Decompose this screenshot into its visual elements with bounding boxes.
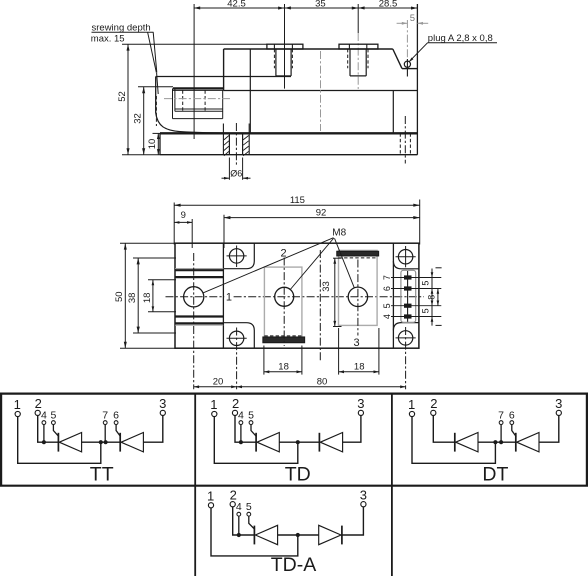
terminal 4 <box>41 409 47 424</box>
svg-text:18: 18 <box>354 361 365 372</box>
svg-text:32: 32 <box>133 113 144 124</box>
terminal 7 <box>498 409 504 424</box>
svg-text:80: 80 <box>317 376 328 387</box>
terminal 1 <box>207 488 214 508</box>
dimension 9 <box>174 210 192 248</box>
diode D1 <box>319 433 342 452</box>
wire terminal 7 drop <box>500 425 502 443</box>
svg-text:9: 9 <box>181 210 186 221</box>
junction terminal 7 <box>499 440 503 444</box>
leader to plug label <box>409 43 497 62</box>
svg-text:6: 6 <box>382 286 392 291</box>
mounting hole top-left <box>227 246 247 268</box>
boss top-right <box>393 261 419 269</box>
dimension 32 <box>133 87 173 155</box>
svg-text:TD-A: TD-A <box>271 554 317 576</box>
svg-text:18: 18 <box>278 361 289 372</box>
table divider 1 <box>194 394 196 576</box>
dimension 18 (left) <box>142 280 176 312</box>
junction terminal 4 <box>42 440 46 444</box>
schematic table top border <box>0 393 588 395</box>
dimension 8 (tabs 6-5) <box>427 289 440 306</box>
right mounting hole (hidden) <box>400 133 410 154</box>
svg-text:4: 4 <box>236 501 242 513</box>
dimension 18 (pad 2) <box>264 346 302 375</box>
left side-terminal section <box>156 77 291 134</box>
svg-text:35: 35 <box>315 0 326 10</box>
svg-text:10: 10 <box>147 139 158 150</box>
svg-text:1: 1 <box>226 292 232 304</box>
hole 1 centerline <box>193 253 195 389</box>
module body outline <box>224 49 418 133</box>
thyristor Th1 <box>254 525 277 544</box>
extension line / screw centerline x=194 <box>193 4 195 139</box>
thyristor Th1 <box>256 433 279 452</box>
body centerline (gray) <box>320 51 322 131</box>
svg-text:3: 3 <box>159 396 166 411</box>
dimension 5 (plug offset) <box>397 13 429 25</box>
pad 3 hidden edge <box>339 257 378 259</box>
svg-text:Ø6: Ø6 <box>230 169 242 179</box>
M8 leader to hole 1 <box>203 238 334 293</box>
junction terminal 4 <box>237 533 241 537</box>
side screw axis (gray) <box>164 98 230 100</box>
right section edge <box>392 243 394 348</box>
svg-text:18: 18 <box>142 293 153 304</box>
mounting hole top-right <box>396 246 416 267</box>
wire anode Th1 to node A <box>82 441 121 443</box>
table right border <box>586 394 588 486</box>
dimension 52 <box>117 44 267 155</box>
schematic table row divider <box>0 485 588 487</box>
control tab 6 <box>382 286 441 291</box>
svg-text:7: 7 <box>382 275 392 280</box>
plug centerline <box>406 20 408 59</box>
terminal 4 <box>236 501 242 516</box>
terminal 2 <box>230 487 237 507</box>
terminal pad 2 (gray) <box>264 267 302 340</box>
svg-text:4: 4 <box>238 409 244 421</box>
terminal 2 <box>430 396 437 416</box>
top view body outline <box>175 243 419 348</box>
svg-text:1: 1 <box>210 397 217 412</box>
boss top-left <box>223 243 254 269</box>
boss bottom-right <box>393 323 419 331</box>
gate lead <box>116 425 121 437</box>
wire anode Th1 to node A <box>279 441 319 443</box>
wire anode Th1 to node A <box>278 534 319 536</box>
terminal 1 <box>14 397 21 417</box>
module vertical centerline <box>319 250 321 362</box>
terminal 1 <box>408 397 415 417</box>
plug A contact <box>404 61 410 67</box>
wire terminal 4 drop <box>238 516 240 535</box>
main horizontal centerline <box>166 296 225 298</box>
svg-text:42.5: 42.5 <box>227 0 246 10</box>
wire terminal 1 loop <box>412 417 495 464</box>
svg-text:srewing depth: srewing depth <box>92 22 151 33</box>
svg-text:5: 5 <box>382 303 392 308</box>
svg-text:5: 5 <box>421 281 431 286</box>
control tab 7 <box>382 275 441 280</box>
svg-text:20: 20 <box>213 376 224 387</box>
table left border <box>0 394 2 486</box>
hole 1 (M8) <box>184 287 204 307</box>
dimension 80 <box>237 376 406 388</box>
wire terminal 4 drop <box>43 425 45 443</box>
wire terminal 2 to cathode Th1 <box>233 507 255 535</box>
post 2 cap <box>339 44 378 49</box>
wire anode D1 to terminal 3 <box>343 416 361 443</box>
left hole centerline <box>235 123 237 166</box>
side view: top dimension chain 42.5 / 35 / 28.5 <box>194 0 418 10</box>
svg-text:TD: TD <box>285 464 311 486</box>
wire cathode D1 to terminal 3 <box>342 507 364 535</box>
svg-text:1: 1 <box>408 397 415 412</box>
control tab 5 <box>382 303 441 308</box>
table divider 2 <box>391 394 393 576</box>
post-2 centerline (gray) <box>357 33 359 89</box>
hole 2 (M8) <box>275 287 294 306</box>
junction node A <box>296 440 300 444</box>
terminal pad 3 (gray) <box>339 250 378 325</box>
thyristor Th1 <box>58 433 81 452</box>
svg-text:max. 15: max. 15 <box>91 34 125 45</box>
terminal 7 <box>102 409 108 424</box>
svg-text:5: 5 <box>421 308 431 313</box>
dimension 38 <box>127 258 176 333</box>
terminal 6 <box>509 409 515 424</box>
post 2 screw <box>348 49 368 76</box>
boss bottom-left <box>223 323 254 349</box>
hole 2 centerline <box>283 258 285 347</box>
control terminal block <box>401 270 416 322</box>
dimension 5 (tabs 5-4) <box>421 297 434 325</box>
junction node A (terminal 1 tie) <box>99 440 103 444</box>
svg-text:plug A 2,8 x 0,8: plug A 2,8 x 0,8 <box>428 33 493 44</box>
svg-text:5: 5 <box>50 409 56 421</box>
terminal 3 <box>360 487 367 507</box>
wire terminal 2 to cathode D1 <box>433 416 455 443</box>
terminal 2 <box>35 396 42 416</box>
terminal 5 <box>50 409 56 424</box>
hole 3 (M8) <box>348 287 367 306</box>
junction node A <box>296 533 300 537</box>
svg-text:4: 4 <box>382 314 392 319</box>
dimension 18 (pad 3) <box>339 328 379 375</box>
control tabs centerline <box>407 271 409 322</box>
dimension 10 <box>147 133 163 154</box>
wire terminal 4 drop <box>240 425 242 443</box>
label: srewing depth max. 15 <box>91 22 154 44</box>
svg-text:2: 2 <box>430 396 437 411</box>
svg-text:50: 50 <box>114 291 125 302</box>
terminal 3 <box>357 396 364 416</box>
terminal 4 <box>238 409 244 424</box>
svg-text:4: 4 <box>41 409 47 421</box>
dimension 33 <box>321 258 342 326</box>
svg-text:3: 3 <box>555 396 562 411</box>
wire anode D1 to node A <box>478 441 516 443</box>
svg-text:1: 1 <box>207 488 214 503</box>
svg-text:7: 7 <box>102 409 108 421</box>
terminal 3 <box>555 396 562 416</box>
pad 2 clamp bar <box>263 337 305 343</box>
wire terminal 1 loop <box>214 417 297 464</box>
wire anode Th2 to terminal 3 <box>539 416 559 443</box>
terminal 5 <box>248 409 254 424</box>
svg-text:DT: DT <box>482 464 508 486</box>
baseplate <box>160 133 417 154</box>
junction node A <box>493 440 497 444</box>
svg-text:115: 115 <box>290 195 305 206</box>
gate lead <box>251 425 257 437</box>
right hole centerline <box>404 116 406 164</box>
svg-text:5: 5 <box>410 13 415 24</box>
terminal 2 <box>232 396 239 416</box>
svg-text:3: 3 <box>360 487 367 502</box>
extension line / post-1 centerline x=284.5 <box>284 4 286 89</box>
wire terminal 2 to cathode Th1 <box>235 416 256 443</box>
gate lead <box>512 425 516 437</box>
wire terminal 1 loop <box>211 508 298 556</box>
pad 2 hidden edge <box>264 335 302 337</box>
wire terminal 7 drop <box>104 425 106 443</box>
terminal 5 <box>246 501 252 516</box>
svg-text:52: 52 <box>117 91 128 102</box>
dimension diameter 6 <box>222 158 251 180</box>
module right edge / extension line <box>416 4 418 155</box>
wire anode Th2 to terminal 3 <box>143 416 162 443</box>
svg-text:5: 5 <box>246 501 252 513</box>
svg-text:6: 6 <box>509 409 515 421</box>
svg-text:33: 33 <box>321 281 332 292</box>
gate lead <box>53 425 58 437</box>
hole 3 centerline <box>357 260 359 336</box>
terminal 1 <box>210 397 217 417</box>
thyristor Th2 <box>516 433 539 452</box>
thyristor Th2 <box>120 433 143 452</box>
top view: dimension 115 <box>174 195 420 244</box>
post 1 screw <box>274 49 292 76</box>
dimension 92 <box>224 207 420 248</box>
svg-text:3: 3 <box>357 396 364 411</box>
side screw hidden hole <box>183 90 205 111</box>
left terminal tabs <box>175 268 223 325</box>
dimension 50 <box>114 243 176 348</box>
svg-text:M8: M8 <box>332 227 346 238</box>
mounting hole bottom-left <box>227 328 247 390</box>
pad 3 clamp bar <box>337 251 379 256</box>
terminal 3 <box>159 396 166 416</box>
M8 leader to hole 2 <box>290 238 334 290</box>
svg-text:6: 6 <box>113 409 119 421</box>
wire terminal 1 loop <box>18 417 101 464</box>
terminal 6 <box>113 409 119 424</box>
svg-text:3: 3 <box>353 337 359 349</box>
svg-text:92: 92 <box>316 207 327 218</box>
post 1 cap <box>267 44 303 49</box>
mounting hole bottom-right <box>396 327 416 389</box>
svg-text:1: 1 <box>14 397 21 412</box>
left mounting hole (sectioned) <box>223 124 249 156</box>
wire terminal 2 to cathode Th1 <box>38 416 59 443</box>
svg-text:5: 5 <box>248 409 254 421</box>
diode D1 <box>319 525 342 544</box>
junction terminal 7 <box>104 440 108 444</box>
leader V to side screw <box>148 32 159 126</box>
junction terminal 4 <box>239 440 243 444</box>
dimension 5 (tabs 7-6) <box>421 269 434 298</box>
M8 leader to hole 3 <box>335 238 355 287</box>
svg-text:7: 7 <box>498 409 504 421</box>
control tab 4 <box>382 314 441 319</box>
left section edge <box>222 243 224 348</box>
dimension 20 <box>194 376 237 388</box>
gate lead <box>249 516 255 529</box>
diode D1 <box>455 433 478 452</box>
svg-text:TT: TT <box>90 464 114 486</box>
extension line x=358.2 <box>357 4 359 33</box>
side clamp terminal <box>173 88 224 118</box>
svg-text:28.5: 28.5 <box>379 0 398 10</box>
svg-text:38: 38 <box>127 293 138 304</box>
